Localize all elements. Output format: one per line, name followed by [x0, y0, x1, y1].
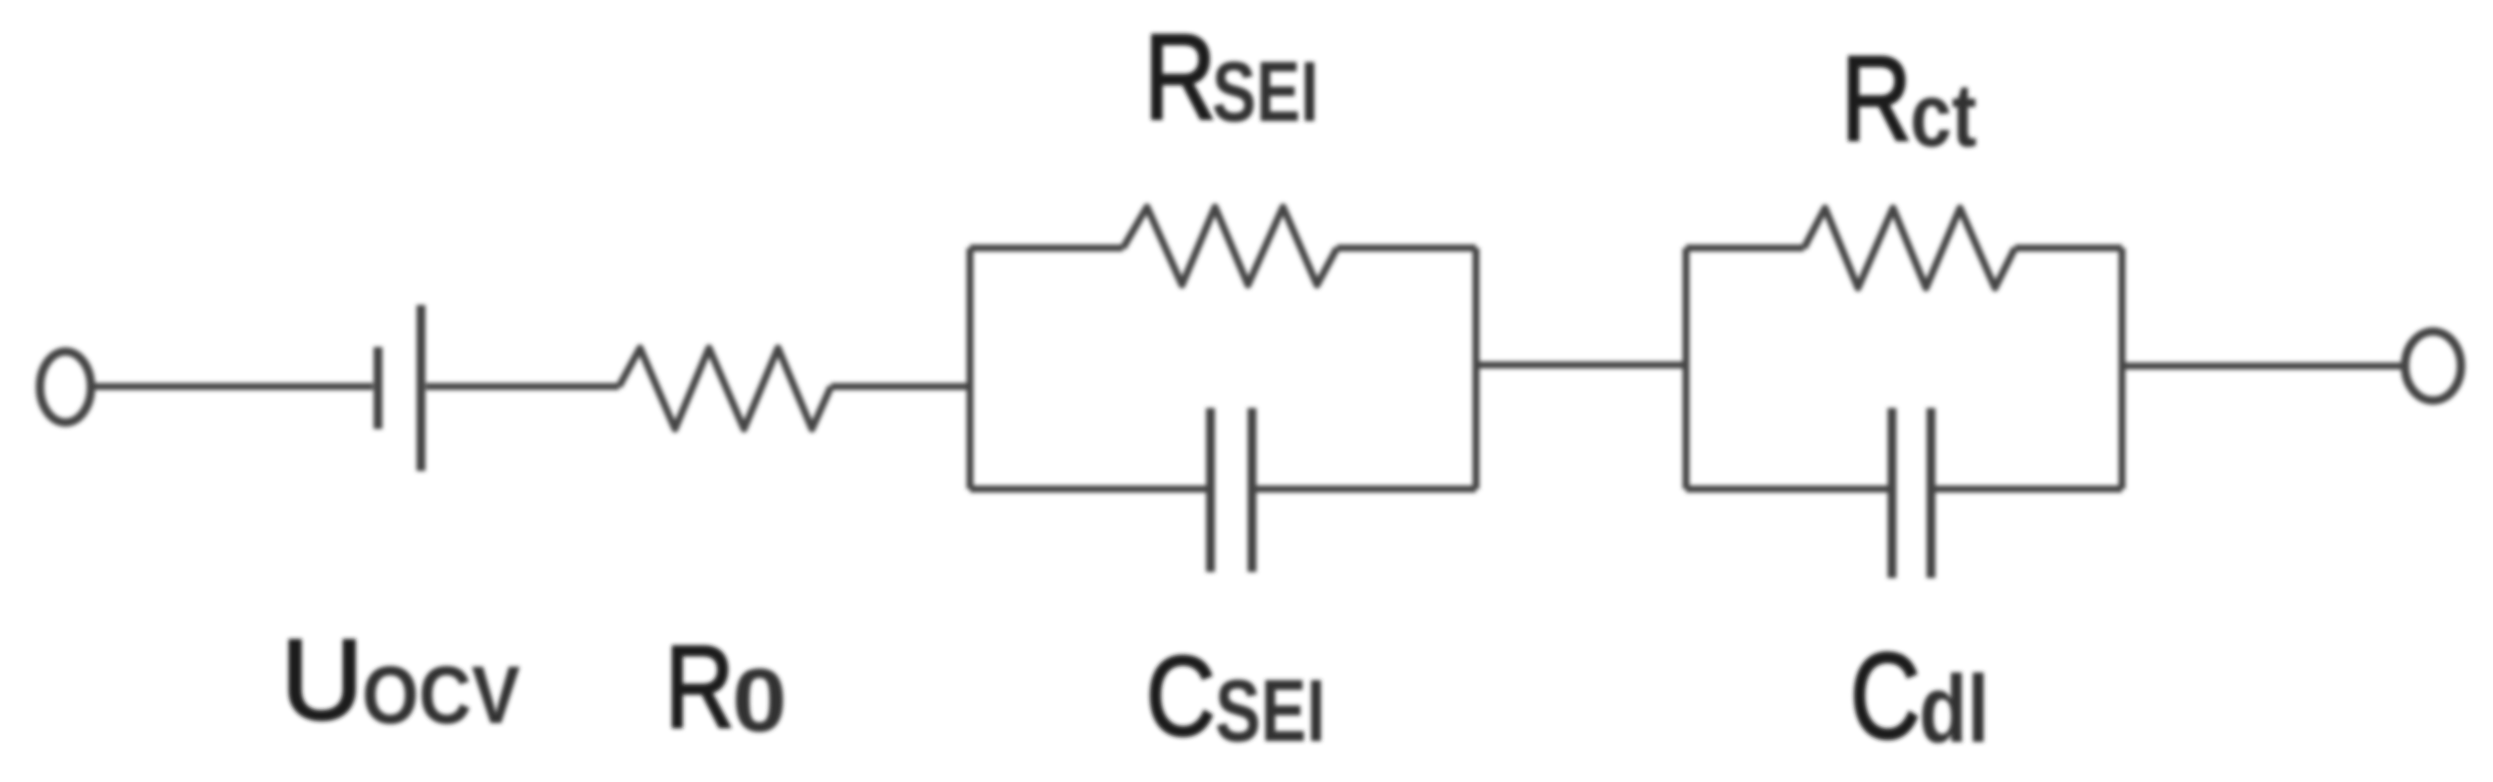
RC block 2 right edge [2119, 248, 2126, 489]
wire RC block 1 to RC block 2 [1476, 362, 1686, 369]
resistor Rct [1804, 208, 2015, 288]
RC block 2 bottom wire right [1931, 486, 2122, 493]
label UOCV [281, 617, 520, 744]
capacitor CSEI right plate [1248, 408, 1257, 572]
RC block 1 top wire left [970, 245, 1123, 252]
RC block 1 right edge [1473, 248, 1480, 489]
wire RC block 2 to T2 [2122, 363, 2406, 370]
battery UOCV positive plate (long) [417, 305, 426, 471]
RC block 1 bottom wire left [970, 486, 1210, 493]
svg-text:0: 0 [732, 650, 787, 751]
RC block 2 top wire left [1686, 245, 1804, 252]
svg-text:C: C [1146, 634, 1215, 760]
label Rct [1841, 31, 1977, 166]
svg-text:R: R [665, 621, 734, 752]
resistor R0 [619, 348, 831, 429]
wire R0 to RC block 1 [831, 383, 970, 390]
label RSEI [1144, 9, 1319, 146]
RC block 1 bottom wire right [1252, 486, 1476, 493]
svg-text:SEI: SEI [1215, 662, 1326, 760]
label Cdl [1850, 629, 1989, 765]
wire T1 to battery [91, 383, 373, 390]
svg-text:R: R [1841, 31, 1912, 166]
resistor RSEI [1123, 207, 1337, 285]
svg-text:OCV: OCV [362, 650, 520, 741]
RC block 2 left edge [1683, 248, 1690, 489]
svg-text:SEI: SEI [1212, 45, 1319, 140]
label CSEI [1146, 634, 1326, 760]
svg-text:dl: dl [1919, 655, 1989, 763]
wire battery to R0 [426, 383, 619, 390]
RC block 1 left edge [967, 248, 974, 489]
capacitor Cdl right plate [1927, 408, 1936, 578]
label R0 [665, 621, 787, 752]
RC block 2 bottom wire left [1686, 486, 1892, 493]
capacitor CSEI left plate [1206, 408, 1215, 572]
svg-text:R: R [1144, 9, 1216, 146]
svg-text:ct: ct [1910, 65, 1977, 166]
svg-text:U: U [281, 617, 363, 744]
battery UOCV negative plate (short) [374, 347, 383, 429]
svg-text:C: C [1850, 629, 1920, 765]
terminal T1 (left) [40, 352, 91, 423]
RC block 2 top wire right [2015, 245, 2122, 252]
terminal T2 (right) [2405, 332, 2461, 401]
RC block 1 top wire right [1337, 245, 1476, 252]
capacitor Cdl left plate [1888, 408, 1897, 578]
